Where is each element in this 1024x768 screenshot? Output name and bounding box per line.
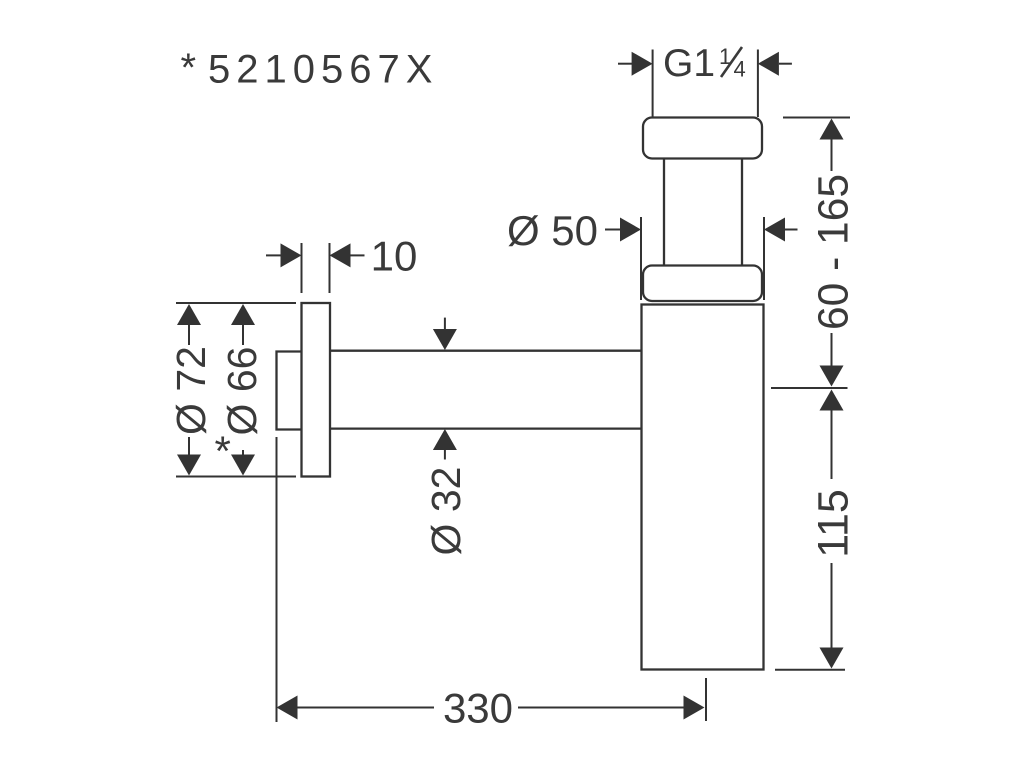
dimension G1 1/4: right arrow [758, 52, 779, 76]
dimension G1 1/4: left arrow tail [618, 63, 632, 65]
dimension D32: upper tail [444, 318, 446, 330]
svg-text:*: * [215, 428, 231, 475]
dimension 330: left extension line [276, 437, 278, 722]
dimension D50: right arrow tail [785, 229, 798, 231]
horizontal outlet pipe top line [330, 350, 642, 352]
dimension 115: top arrow [820, 390, 844, 411]
svg-text:G1: G1 [663, 42, 715, 85]
dimension D72: bottom arrow [177, 455, 201, 476]
dimension 115: bottom arrow [820, 648, 844, 669]
top nut (upper rounded coupling) [643, 118, 762, 159]
dimension 60-165: lower tail [831, 333, 833, 366]
dimension 10: left arrow [281, 243, 302, 267]
svg-text:10: 10 [371, 232, 418, 279]
riser tube right wall [741, 159, 743, 267]
dimension 60-165: bottom extension line [771, 387, 848, 389]
dimension 330: right arrow [684, 696, 705, 720]
dimension 10: left arrow tail [266, 254, 281, 256]
dimension D50: left extension line [640, 217, 642, 300]
dimension D66: lower tail [242, 450, 244, 457]
dimension D50: right extension line [763, 217, 765, 300]
dimension 60-165: top arrow [820, 119, 844, 140]
dimension G1 1/4: right arrow tail [779, 63, 792, 65]
dimension 330: right line segment [518, 707, 684, 709]
dimension 60-165: upper tail [831, 139, 833, 171]
svg-text:4: 4 [734, 57, 746, 82]
dimension D32: lower tail [444, 450, 446, 460]
dimension D50: left arrow tail [605, 229, 621, 231]
dimension 330: left line segment [298, 707, 435, 709]
svg-text:115: 115 [810, 489, 858, 558]
svg-text:60 - 165: 60 - 165 [811, 174, 858, 330]
dimension 115: lower tail [831, 563, 833, 648]
riser tube left wall [663, 159, 665, 267]
dimension 10: right arrow [330, 243, 351, 267]
svg-text:Ø 32: Ø 32 [423, 467, 469, 556]
wall flange (escutcheon) [302, 303, 331, 477]
dimension D72/D66: bottom extension line [176, 476, 296, 478]
dimension D66: upper tail [242, 324, 244, 345]
dimension 10: left extension line [301, 243, 303, 293]
dimension D66: top arrow [231, 304, 255, 325]
dimension 60-165: bottom arrow [820, 366, 844, 387]
dimension G1 1/4: right extension line [757, 50, 759, 118]
trap body (vertical cup) [642, 305, 764, 670]
dimension D72: top arrow [177, 304, 201, 325]
dimension G1 1/4: left arrow [632, 52, 653, 76]
dimension D50: left arrow [620, 218, 641, 242]
dimension D72: upper tail [188, 324, 190, 345]
dimension 115: bottom extension line [775, 669, 845, 671]
dimension D66: bottom arrow [231, 455, 255, 476]
dimension D72/D66: top extension line [176, 302, 296, 304]
svg-text:*: * [181, 46, 197, 90]
svg-text:5210567X: 5210567X [208, 48, 438, 92]
dimension 10: right arrow tail [351, 254, 365, 256]
svg-text:Ø 66: Ø 66 [219, 347, 265, 436]
dimension G1 1/4: left extension line [652, 50, 654, 118]
dimension D50: right arrow [764, 218, 785, 242]
dimension 330: left arrow [277, 696, 298, 720]
dimension 330: right extension line [705, 678, 707, 721]
svg-text:Ø 50: Ø 50 [507, 207, 598, 254]
dimension D72: lower tail [188, 437, 190, 456]
lower nut (rounded coupling above body) [643, 266, 762, 302]
wall pipe stub left of flange [277, 352, 302, 430]
svg-text:330: 330 [443, 685, 513, 732]
dimension D32: bottom arrow (pointing up) [433, 429, 457, 450]
dimension 60-165: top extension line [783, 117, 850, 119]
dimension 10: right extension line [329, 243, 331, 293]
svg-text:Ø 72: Ø 72 [168, 346, 214, 435]
dimension 115: upper tail [831, 410, 833, 479]
horizontal outlet pipe bottom line [330, 427, 642, 429]
dimension D32: top arrow (pointing down) [433, 329, 457, 350]
